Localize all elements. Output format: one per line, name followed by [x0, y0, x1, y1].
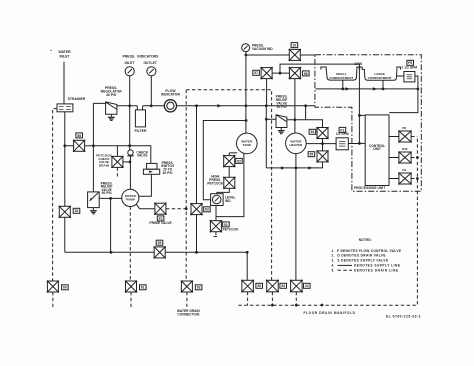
drain valve on strainer vertical: [59, 206, 72, 219]
wire F5 output down right side: [389, 76, 418, 113]
junction dots y146 line: [92, 144, 131, 147]
pressure indicator inlet gauge: [125, 67, 134, 76]
wire control to drain valve D5: [389, 136, 399, 138]
flow control valve F1 1/2 GPM: [336, 138, 348, 150]
check valve: [127, 150, 134, 156]
registration mark top left: [50, 50, 51, 51]
tag flow control F5: [407, 60, 414, 65]
svg-text:HEATER: HEATER: [290, 143, 304, 147]
wire high press petcock to level box: [217, 188, 229, 193]
tag prime valve F2: [157, 216, 164, 221]
svg-text:59: 59: [158, 241, 162, 245]
ground regulator 40 psi vent: [108, 114, 115, 120]
svg-text:DENOTES SUPPLY LINE: DENOTES SUPPLY LINE: [354, 264, 400, 268]
label PETCOCK lower: [223, 228, 240, 232]
tag row valve 2: [280, 283, 287, 288]
label D5: [402, 126, 406, 130]
main drain valve on bottom header: [153, 246, 166, 259]
svg-text:35: 35: [257, 284, 261, 288]
svg-text:EL 6760-225-33-2: EL 6760-225-33-2: [386, 314, 421, 318]
svg-text:PRESS. INDICATORS: PRESS. INDICATORS: [122, 54, 159, 58]
wire large compartment to flow control F5: [397, 75, 404, 77]
label 2 1/2 GPM: [401, 66, 417, 70]
label 1/2 GPM: [336, 132, 349, 136]
label INLET: [125, 61, 135, 65]
svg-text:54: 54: [311, 130, 315, 134]
high pressure petcock: [223, 177, 236, 190]
label FLOW INDICATOR: [161, 89, 180, 97]
wire row valve stubs to manifold: [248, 292, 297, 305]
label OUTLET: [143, 61, 157, 65]
svg-text:63: 63: [205, 208, 209, 212]
wire outlet gauge stem: [150, 76, 152, 106]
wire valve57-valve56 link y73: [272, 72, 289, 74]
label FILTER: [135, 129, 147, 133]
drain valve bottom left A: [47, 280, 60, 293]
svg-text:40 PSI: 40 PSI: [106, 93, 116, 97]
label PRESS. SWITCH 20 TO 40 PSI: [161, 161, 175, 175]
label WATER TANK: [241, 140, 253, 148]
svg-text:IND.: IND.: [225, 199, 232, 203]
filter stubs: [137, 106, 142, 110]
level indicator: [211, 194, 224, 206]
svg-text:VALVE: VALVE: [137, 154, 147, 158]
flow indicator: [164, 100, 176, 112]
label HIGH PRESS. PETCOCK: [207, 174, 224, 185]
tag valve S5: [308, 152, 315, 157]
svg-text:61: 61: [141, 286, 145, 290]
svg-text:57: 57: [254, 71, 258, 75]
label PRESS. RELIEF VALVE 50 PSI: [101, 181, 113, 195]
tag level petcock: [223, 222, 230, 227]
sink large compartment: [360, 67, 401, 80]
tag flow control F1: [339, 127, 346, 132]
svg-text:58: 58: [77, 134, 81, 138]
pressure relief valve 90 PSI: [276, 115, 287, 128]
svg-text:F5: F5: [408, 61, 412, 65]
svg-text:SINK: SINK: [354, 62, 362, 66]
tag drain valve B: [140, 285, 147, 290]
wire relief-90 feed vertical x266: [266, 106, 276, 168]
floor drain valve row 2: [266, 280, 279, 293]
label D42: [402, 147, 408, 151]
wire vacuum vent line y55: [246, 54, 315, 56]
strainer: [57, 104, 73, 112]
wire tank level tap: [203, 121, 246, 200]
drain valve on supply drop x196: [190, 203, 203, 216]
svg-text:PETCOCK: PETCOCK: [207, 181, 224, 185]
supply valve S7: [260, 67, 273, 80]
flow control valve F5 2-1/2 GPM: [404, 72, 415, 82]
wire sink faucet supply: [280, 64, 359, 143]
svg-text:TANK: TANK: [243, 143, 252, 147]
wire F1 line into control unit: [359, 142, 365, 144]
wire control to drain valve D42: [389, 157, 399, 159]
svg-text:50 PSI: 50 PSI: [102, 191, 112, 195]
tag valve S7: [253, 70, 260, 75]
svg-text:2. D DENOTES DRAIN VALVE: 2. D DENOTES DRAIN VALVE: [332, 254, 386, 258]
svg-text:PETCOCK: PETCOCK: [223, 228, 240, 232]
wire petcock drain stub dashed: [116, 167, 118, 176]
wire check valve vertical (main to pump): [129, 106, 132, 190]
control unit: [365, 115, 389, 186]
svg-text:90 PSI: 90 PSI: [277, 105, 287, 109]
flow arrow main supply: [217, 104, 221, 107]
svg-text:DRAIN: DRAIN: [99, 164, 110, 168]
svg-text:D5: D5: [402, 126, 406, 130]
wire drain drop x247: [246, 252, 248, 280]
svg-text:D42: D42: [402, 147, 408, 151]
processing drain valve D4: [398, 172, 412, 185]
wire control to drain valve D4: [389, 178, 399, 180]
heater outlet valve S5: [316, 150, 329, 163]
wire drain dashed top run to center: [186, 90, 271, 281]
wire inlet gauge stem: [129, 76, 131, 106]
wire bottom drain header y252: [65, 251, 247, 253]
pressure relief valve 50 PSI: [88, 192, 100, 208]
wire water drain connection dashed: [185, 90, 188, 307]
svg-text:FILTER: FILTER: [135, 129, 147, 133]
pressure regulator 40 PSI: [106, 102, 117, 114]
tag valve S2: [76, 133, 83, 138]
wire vacuum gauge to tank vertical: [245, 52, 247, 134]
wire water inlet vertical: [63, 62, 65, 104]
wire level indicator to petcock: [215, 206, 217, 221]
svg-text:VACUUM IND.: VACUUM IND.: [252, 47, 274, 51]
wire valve-58 line y146: [65, 146, 151, 164]
svg-text:4.: 4.: [332, 264, 335, 268]
wire heater drain drop x296: [295, 168, 297, 280]
filter: [135, 110, 145, 127]
label WATER PUMP: [125, 194, 137, 201]
label SINK: [354, 62, 362, 66]
svg-text:INLET: INLET: [125, 61, 135, 65]
notes block: [332, 238, 402, 272]
svg-text:55: 55: [310, 153, 314, 157]
tank outlet valve S3: [223, 155, 236, 168]
svg-text:OUTLET: OUTLET: [143, 61, 157, 65]
wire pump drain dashed: [129, 207, 132, 309]
heater bypass valve S4: [316, 127, 329, 140]
svg-text:NOTES:: NOTES:: [359, 238, 372, 242]
svg-text:D4: D4: [402, 168, 406, 172]
svg-text:DENOTES DRAIN LINE: DENOTES DRAIN LINE: [354, 268, 398, 272]
label WATER DRAIN CONNECTION: [177, 309, 200, 317]
drain valve bottom left B (pump drain): [125, 280, 138, 293]
wire petcock stub dashed: [214, 232, 219, 237]
svg-text:PUMP: PUMP: [126, 198, 135, 202]
enclosure sink and processing unit dash-dot boundary: [315, 55, 421, 192]
flow arrows sink drain: [345, 87, 377, 90]
label PRESS. INDICATORS: [122, 54, 159, 58]
svg-text:STRAINER: STRAINER: [68, 97, 86, 101]
floor drain valve row 3: [290, 280, 303, 293]
svg-text:40 PSI: 40 PSI: [163, 171, 173, 175]
label WATER INLET: [58, 50, 71, 58]
ground relief valve 50 psi vent: [90, 208, 97, 214]
wire floor drain manifold dashed: [238, 137, 417, 306]
svg-text:1/2 GPM: 1/2 GPM: [336, 132, 349, 136]
wire strainer drain lower dashed: [52, 292, 54, 309]
wire supply drop x196: [196, 106, 198, 253]
junction dots drain header: [63, 144, 248, 253]
petcock check valve drain: [111, 156, 124, 169]
wire D4 to collector dashed: [411, 178, 417, 180]
svg-text:INLET: INLET: [59, 55, 70, 59]
junction dots main supply: [128, 104, 307, 107]
wire pump outlet to prime valve: [136, 204, 155, 209]
label LARGE COMPARTMENT: [368, 72, 392, 80]
wire sink drain line y89: [315, 80, 418, 89]
water pump: [122, 189, 139, 206]
svg-text:60: 60: [63, 286, 67, 290]
supply valve S2 on strainer line: [73, 140, 86, 153]
svg-text:CONNECTION: CONNECTION: [177, 313, 200, 317]
water drain connection valve C: [181, 280, 194, 293]
wire valve54 to hot line: [322, 139, 324, 151]
svg-text:5.: 5.: [332, 268, 335, 272]
pressure vacuum indicator gauge: [242, 44, 250, 52]
wire relief-50 output to pump: [99, 198, 122, 252]
svg-text:INDICATOR: INDICATOR: [161, 93, 180, 97]
svg-text:52: 52: [75, 209, 79, 213]
svg-text:3. S DENOTES SUPPLY VALVE: 3. S DENOTES SUPPLY VALVE: [332, 259, 389, 263]
wire pressure switch to pump: [139, 174, 151, 196]
floor drain valve row 1: [241, 280, 254, 293]
wire prime valve drain dashed: [166, 208, 186, 210]
svg-text:2 1/2 GPM: 2 1/2 GPM: [401, 66, 417, 70]
svg-text:10: 10: [293, 44, 297, 48]
wire valve53 to high press petcock: [228, 167, 230, 178]
wire strainer to drain valve vertical: [64, 112, 66, 252]
label PRESS. VACUUM IND.: [252, 43, 274, 51]
tag drain valve C: [195, 285, 202, 290]
svg-text:51: 51: [224, 223, 228, 227]
ground relief valve 90 psi vent: [278, 128, 285, 134]
wire valve57 riser: [266, 79, 268, 106]
wire valve56 to water heater vertical: [294, 79, 296, 133]
vacuum vent valve S8: [289, 49, 302, 62]
label D4: [402, 168, 406, 172]
processing drain valve D42: [398, 151, 412, 164]
tag main drain valve: [156, 240, 163, 245]
svg-text:FLOOR DRAIN MANIFOLD: FLOOR DRAIN MANIFOLD: [304, 311, 356, 315]
prime valve F2: [154, 202, 167, 215]
level drain petcock: [210, 220, 223, 233]
wire hot water line to flow control F1: [306, 143, 359, 145]
label STRAINER: [68, 97, 86, 101]
wire main supply line y106: [117, 105, 315, 107]
svg-text:PROCESSING UNIT: PROCESSING UNIT: [354, 186, 385, 190]
tag valve S8: [291, 43, 298, 48]
svg-text:53: 53: [237, 159, 241, 163]
wire petcock drain link: [117, 146, 129, 162]
tag valve x196: [204, 207, 211, 212]
label LEVEL IND.: [225, 195, 236, 203]
label CHECK VALVE: [137, 150, 149, 157]
tag drain valve A: [62, 285, 69, 290]
svg-text:33: 33: [281, 284, 285, 288]
tag valve S3: [236, 158, 243, 163]
wire strainer drain dashed: [53, 109, 57, 281]
sink small compartment: [321, 67, 359, 80]
supply valve S6: [289, 67, 302, 80]
wire control unit feed top-left: [359, 114, 365, 116]
wire tank to valve53: [229, 153, 237, 156]
label CONTROL UNIT: [369, 144, 385, 151]
pressure switch 20-40 psi: [143, 163, 159, 174]
label WATER HEATER: [290, 139, 304, 147]
label PRESS. REGULATOR 40 PSI: [101, 86, 123, 97]
svg-text:56: 56: [304, 72, 308, 76]
svg-text:COMPARTMENT: COMPARTMENT: [329, 76, 353, 80]
flow arrow heater drain line: [308, 166, 312, 169]
wire regulator feed and relief-50 feed vertical: [93, 103, 105, 191]
wire heater drain line y168: [266, 154, 322, 168]
svg-text:PRIME VALVE: PRIME VALVE: [149, 221, 172, 225]
label PROCESSING UNIT: [354, 186, 385, 190]
label PETCOCK CHECK VALVE DRAIN: [96, 153, 112, 167]
label SMALL COMPARTMENT: [329, 72, 353, 80]
wire D5 to collector dashed: [411, 136, 417, 138]
svg-text:UNIT: UNIT: [373, 147, 381, 151]
wire tank bottom loop: [216, 153, 244, 217]
tag valve S4: [309, 129, 316, 134]
pressure indicator outlet gauge: [147, 67, 156, 76]
svg-text:62: 62: [197, 286, 201, 290]
svg-text:34: 34: [305, 284, 309, 288]
wire D42 to collector dashed: [411, 157, 417, 159]
label PRESS. RELIEF VALVE 90 PSI: [276, 94, 288, 109]
water tank: [237, 133, 258, 154]
processing drain valve D5: [398, 130, 412, 143]
svg-text:WATER: WATER: [58, 50, 71, 54]
wire heater bypass line y120: [287, 106, 323, 128]
svg-text:COMPARTMENT: COMPARTMENT: [368, 76, 392, 80]
tag row valve 3: [304, 283, 311, 288]
svg-text:1. F DENOTES FLOW CONTROL VAL: 1. F DENOTES FLOW CONTROL VALVE: [332, 249, 402, 253]
tag valve 52: [73, 208, 80, 213]
tag row valve 1: [256, 283, 263, 288]
water heater: [286, 133, 307, 154]
tag valve S6: [303, 71, 310, 76]
label PRIME VALVE: [149, 221, 172, 225]
